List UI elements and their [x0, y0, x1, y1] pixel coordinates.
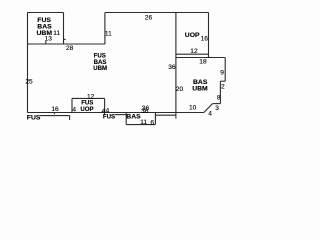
svg-text:UBM: UBM — [93, 65, 107, 72]
wire right edge of top section — [208, 13, 210, 58]
wire right edge of upper-left box — [63, 13, 65, 45]
wire jog (2) — [220, 80, 225, 82]
wire interior partition vertical (36) — [175, 13, 177, 119]
svg-text:UBM: UBM — [192, 86, 208, 93]
wire jog (3) — [213, 103, 221, 105]
svg-text:6: 6 — [150, 119, 154, 126]
svg-text:4: 4 — [208, 110, 212, 117]
svg-text:9: 9 — [220, 70, 224, 77]
wire tick right of box at 39 — [64, 38, 66, 40]
wire BAS box right — [154, 113, 156, 125]
wire tick under 13 — [45, 41, 47, 44]
svg-text:11: 11 — [53, 30, 60, 37]
wire BAS box bottom — [126, 124, 155, 126]
wire leader line left FUS — [40, 115, 70, 117]
svg-text:UOP: UOP — [185, 32, 200, 39]
wire left wall — [27, 13, 29, 113]
svg-text:16: 16 — [51, 106, 59, 113]
svg-text:UOP: UOP — [80, 106, 93, 113]
svg-text:18: 18 — [199, 59, 207, 66]
wire diagonal (4) — [204, 104, 213, 113]
svg-text:13: 13 — [45, 36, 53, 43]
svg-text:12: 12 — [190, 48, 198, 55]
wire porch box right — [104, 98, 106, 114]
svg-text:2: 2 — [221, 84, 225, 91]
wire leader between FUS and BAS — [115, 114, 126, 116]
svg-text:36: 36 — [141, 108, 149, 115]
svg-text:11: 11 — [140, 119, 147, 126]
wire left edge of tall top section — [104, 13, 106, 45]
svg-text:FUS: FUS — [103, 113, 115, 120]
svg-text:28: 28 — [66, 45, 74, 52]
wire top edge of upper-left box — [27, 12, 63, 14]
wire tick under 16 — [53, 113, 55, 115]
wire right wing top (18) — [176, 57, 225, 59]
svg-text:25: 25 — [25, 78, 33, 85]
svg-text:11: 11 — [105, 31, 112, 38]
wire porch box left — [71, 98, 73, 112]
wire porch box top (12) — [72, 97, 105, 99]
svg-text:26: 26 — [145, 15, 153, 22]
wire BAS box left — [125, 113, 127, 125]
wire right wing east wall (9) — [224, 58, 226, 82]
wire bottom of upper-left box and notch (28) — [27, 43, 105, 45]
svg-text:4: 4 — [72, 107, 76, 114]
svg-text:16: 16 — [201, 35, 209, 42]
wire ledge right of BAS box — [155, 114, 176, 116]
wire UOP bottom (12) — [176, 53, 209, 55]
svg-text:BAS: BAS — [126, 114, 141, 121]
wire bottom main edge — [27, 112, 204, 114]
wire east wall lower (8) — [219, 81, 221, 103]
svg-text:36: 36 — [168, 64, 176, 71]
wire tick at end of leader — [69, 116, 71, 120]
wire top edge of tall top section (26) — [105, 12, 209, 14]
svg-text:8: 8 — [217, 95, 221, 102]
svg-text:10: 10 — [189, 105, 197, 112]
svg-text:FUS: FUS — [27, 114, 41, 121]
svg-text:20: 20 — [176, 86, 184, 93]
svg-text:3: 3 — [215, 105, 219, 112]
